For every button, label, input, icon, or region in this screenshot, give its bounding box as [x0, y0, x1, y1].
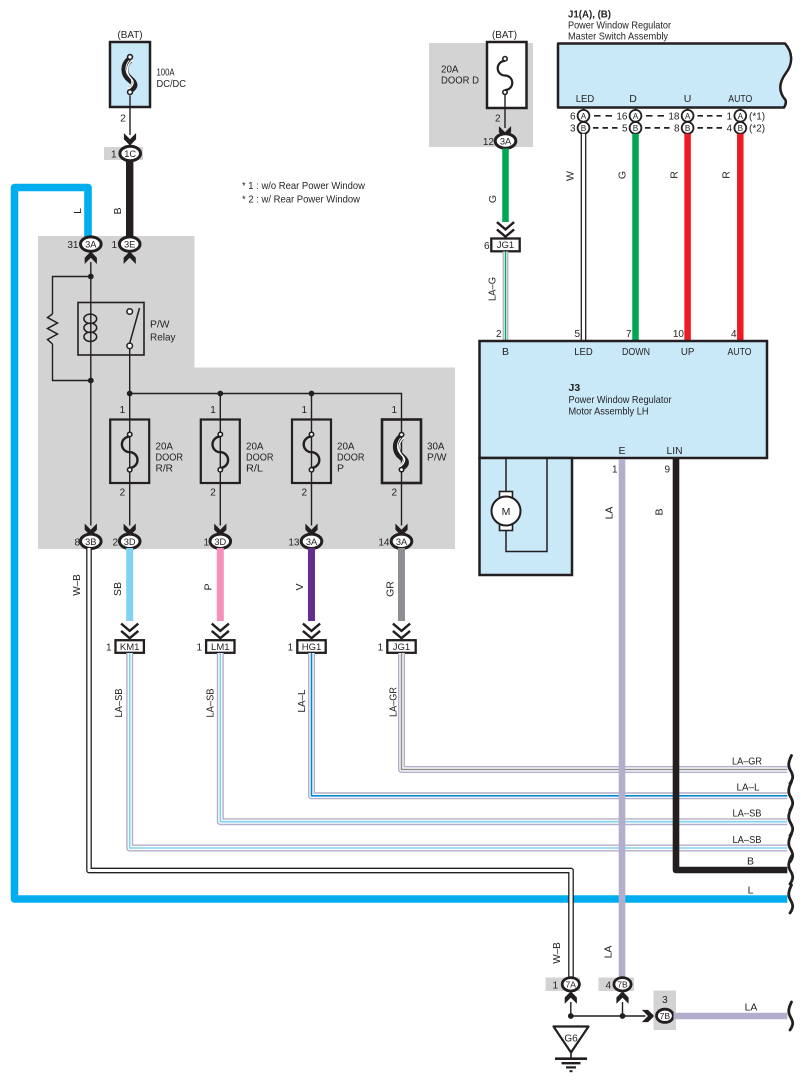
svg-text:B: B: [747, 856, 754, 868]
connector 13 3A: [288, 534, 321, 548]
brace LA-SB upper: [789, 808, 793, 836]
node junction top of resistor branch: [88, 274, 94, 280]
svg-text:3E: 3E: [124, 240, 135, 250]
svg-text:J1(A), (B): J1(A), (B): [568, 9, 611, 21]
dashes D to U row A: [646, 115, 668, 117]
door D relay block shaded area: [429, 43, 533, 147]
svg-text:LA–SB: LA–SB: [113, 689, 125, 718]
svg-text:Relay: Relay: [150, 332, 176, 344]
svg-text:HG1: HG1: [302, 642, 322, 653]
svg-text:18: 18: [668, 112, 680, 123]
brace LA bottom: [789, 1002, 793, 1030]
arrow into 3D (R/R): [124, 525, 135, 535]
relay switch contact top: [127, 309, 133, 315]
arrow double chevron into JG1 upper: [497, 222, 514, 237]
svg-text:1: 1: [120, 405, 126, 416]
wire R (U) from J1 to J3: [684, 134, 691, 341]
svg-text:12: 12: [483, 137, 495, 148]
motor assembly J3 box: [480, 341, 768, 458]
svg-text:1: 1: [612, 465, 618, 476]
wire fuse P/W to 3A: [401, 483, 403, 526]
node bus at P: [309, 391, 315, 397]
arrow into 1C: [125, 135, 136, 145]
wire fuse R/L to 3D: [219, 483, 221, 526]
svg-text:JG1: JG1: [497, 240, 514, 251]
wire LA-SB from LM1: [220, 653, 787, 822]
svg-text:3D: 3D: [214, 537, 226, 547]
svg-text:Power Window Regulator: Power Window Regulator: [569, 394, 672, 406]
wire ground bus: [571, 1002, 646, 1016]
connector 1C: [104, 146, 143, 160]
svg-text:1: 1: [106, 643, 112, 654]
svg-text:* 2 : w/ Rear Power Window: * 2 : w/ Rear Power Window: [242, 194, 360, 206]
svg-text:2: 2: [301, 488, 307, 499]
svg-text:7A: 7A: [566, 980, 577, 990]
svg-text:7B: 7B: [617, 980, 628, 990]
arrow into 3B: [85, 525, 96, 535]
junction block shaded area: [38, 236, 455, 549]
svg-text:3: 3: [570, 124, 576, 135]
fuse 30A P/W: [382, 420, 421, 484]
resistor zigzag: [48, 314, 58, 344]
svg-text:2: 2: [120, 488, 126, 499]
svg-text:14: 14: [378, 537, 390, 548]
arrow right into 7B (3): [643, 1011, 653, 1022]
arrow up into 7B: [617, 992, 628, 1002]
arrow into 3A (P/W): [396, 525, 407, 535]
arrow into 3A (P): [306, 525, 317, 535]
svg-text:G: G: [487, 195, 499, 203]
svg-text:DOWN: DOWN: [622, 346, 650, 358]
svg-text:R: R: [721, 171, 733, 179]
wire LA-G from JG1 to J3: [503, 252, 509, 342]
connector 1 7A: [546, 978, 581, 992]
arrow into 3D (R/L): [215, 525, 226, 535]
svg-text:2: 2: [495, 114, 501, 125]
junction JG1 (lower): [378, 640, 416, 653]
arrow double chevron into JG1 (GR): [393, 624, 410, 639]
svg-text:1: 1: [378, 643, 384, 654]
fuse 20A DOOR R/R: [110, 420, 149, 484]
svg-text:R: R: [669, 171, 681, 179]
svg-text:A: A: [685, 112, 691, 121]
wire G from 3A to JG1: [502, 149, 509, 223]
svg-text:1: 1: [111, 149, 117, 160]
fuse 20A DOOR P: [292, 420, 331, 484]
svg-text:3A: 3A: [396, 537, 408, 547]
wire B from LIN down and right: [676, 459, 787, 870]
wire B (thick) from 1C to 3E: [126, 161, 133, 240]
svg-text:W–B: W–B: [71, 574, 83, 596]
svg-text:4: 4: [605, 980, 611, 991]
wire LA-L from HG1: [312, 653, 788, 796]
wire fuse R/R to 3D: [129, 483, 131, 526]
svg-text:B: B: [112, 207, 124, 214]
svg-text:LA–SB: LA–SB: [205, 689, 217, 718]
pin 6 A (LED): [570, 110, 589, 123]
svg-text:3A: 3A: [85, 240, 97, 250]
svg-text:LA: LA: [603, 946, 615, 959]
svg-text:3: 3: [662, 995, 668, 1006]
wire from fusible link to 1C: [129, 96, 131, 136]
svg-text:UP: UP: [681, 346, 695, 358]
motor brush bottom: [500, 523, 513, 531]
svg-text:GR: GR: [385, 581, 397, 597]
connector 12 3A: [483, 134, 516, 148]
arrow up into 7A: [565, 992, 576, 1002]
svg-text:1: 1: [391, 405, 397, 416]
wire R (AUTO) from J1 to J3: [737, 134, 744, 341]
wire fuse bus: [130, 394, 402, 420]
svg-text:LA–L: LA–L: [296, 689, 308, 712]
svg-text:B: B: [738, 124, 744, 133]
svg-text:Master Switch Assembly: Master Switch Assembly: [568, 31, 669, 43]
wire relay coil line: [90, 262, 92, 526]
svg-text:31: 31: [67, 240, 79, 251]
svg-text:5: 5: [574, 329, 580, 340]
node bus at R/L: [217, 391, 223, 397]
wire tap to fuse P: [311, 394, 313, 420]
wire W from J1 to J3: [581, 134, 587, 341]
connector 4 7B: [599, 978, 635, 992]
dashes U to AUTO row B: [698, 127, 725, 129]
connector 14 3A: [378, 534, 411, 548]
wire fuse P to 3A: [311, 483, 313, 526]
node bus at R/R: [127, 391, 133, 397]
arrow up into 3A: [85, 252, 96, 262]
svg-text:2: 2: [391, 488, 397, 499]
node at 7A ground: [568, 1013, 574, 1019]
relay P/W Relay box: [78, 303, 144, 356]
fuse 20A DOOR D: [487, 42, 527, 108]
wire relay switch to bus: [129, 349, 131, 394]
node junction bottom of resistor branch: [88, 378, 94, 384]
connector 31 3A: [67, 237, 101, 251]
svg-text:AUTO: AUTO: [728, 346, 752, 358]
svg-text:A: A: [633, 112, 639, 121]
wire P from 3D: [217, 548, 224, 621]
svg-text:Motor Assembly LH: Motor Assembly LH: [569, 405, 649, 417]
svg-text:B: B: [502, 346, 509, 358]
connector 3 7B: [654, 991, 677, 1031]
pin stubs under J1: [584, 108, 741, 111]
svg-text:3B: 3B: [85, 537, 96, 547]
svg-text:L: L: [748, 885, 754, 897]
svg-text:A: A: [581, 112, 587, 121]
fuse 20A DOOR R/L: [201, 420, 240, 484]
connector 8 3B: [74, 534, 101, 548]
svg-text:R/L: R/L: [246, 463, 263, 475]
svg-text:6: 6: [484, 241, 490, 252]
svg-text:AUTO: AUTO: [728, 93, 752, 105]
relay coil: [84, 314, 97, 341]
brace LA-SB lower: [789, 834, 793, 862]
svg-text:W: W: [565, 171, 577, 181]
svg-text:LA: LA: [604, 507, 616, 520]
relay switch blade: [130, 308, 140, 343]
wire G from J1 to J3: [632, 134, 639, 341]
svg-text:U: U: [684, 93, 692, 105]
wire LA-SB from KM1: [130, 653, 788, 848]
svg-text:3D: 3D: [124, 537, 136, 547]
wire tap to fuse R/L: [219, 394, 221, 420]
svg-text:A: A: [738, 112, 744, 121]
svg-text:P/W: P/W: [427, 452, 447, 464]
pin 3 B (LED): [570, 122, 589, 135]
wire GR from 3A: [398, 548, 405, 621]
svg-text:LED: LED: [576, 93, 595, 105]
svg-text:(*2): (*2): [749, 124, 765, 135]
junction HG1: [288, 640, 326, 653]
svg-text:SB: SB: [112, 582, 124, 596]
connector 1 3D: [203, 534, 230, 548]
svg-text:W–B: W–B: [551, 942, 563, 964]
svg-text:KM1: KM1: [120, 642, 140, 653]
svg-text:1: 1: [726, 112, 732, 123]
junction LM1: [196, 640, 234, 653]
svg-text:LA: LA: [745, 1002, 758, 1014]
arrow up into 3E: [124, 252, 135, 262]
connector 2 3D: [112, 534, 140, 548]
svg-text:M: M: [502, 506, 511, 518]
svg-text:1: 1: [111, 240, 117, 251]
fusible link 100A DC/DC: [110, 42, 150, 107]
svg-text:(BAT): (BAT): [118, 29, 143, 41]
svg-text:B: B: [633, 124, 639, 133]
svg-text:D: D: [629, 93, 637, 105]
wire LA-GR from JG1: [402, 653, 788, 770]
svg-text:LA–G: LA–G: [487, 277, 499, 301]
arrow double chevron into KM1: [121, 624, 138, 639]
resistor branch wire: [53, 277, 91, 381]
arrow double chevron into LM1: [212, 624, 229, 639]
svg-text:100A: 100A: [157, 67, 175, 79]
ground G6: [554, 1027, 589, 1072]
svg-text:1: 1: [196, 643, 202, 654]
pin 16 A (D): [616, 110, 641, 123]
svg-text:LM1: LM1: [211, 642, 229, 653]
svg-text:JG1: JG1: [393, 642, 410, 653]
svg-text:LA–GR: LA–GR: [388, 687, 400, 717]
junction 6 JG1 (upper): [484, 239, 520, 253]
brace B: [789, 856, 793, 884]
svg-text:1: 1: [203, 537, 209, 548]
svg-text:2: 2: [210, 488, 216, 499]
svg-text:13: 13: [288, 537, 300, 548]
master switch assembly J1 box: [558, 44, 791, 108]
svg-text:L: L: [72, 208, 84, 214]
pin 4 B (AUTO): [726, 122, 746, 135]
svg-text:2: 2: [496, 329, 502, 340]
svg-text:16: 16: [616, 112, 628, 123]
brace LA-GR: [789, 756, 793, 784]
arrow double chevron into HG1: [303, 624, 320, 639]
dashes LED to D row A: [594, 115, 616, 117]
motor brush top: [500, 492, 513, 500]
dashes D to U row B: [645, 127, 671, 129]
wire LA from E to 7B: [619, 459, 626, 978]
svg-text:LIN: LIN: [667, 445, 683, 457]
svg-text:P/W: P/W: [150, 319, 170, 331]
pin 18 A (U): [668, 110, 693, 123]
svg-text:E: E: [618, 445, 625, 457]
svg-text:(*1): (*1): [749, 112, 765, 123]
svg-text:3A: 3A: [306, 537, 318, 547]
svg-text:1: 1: [288, 643, 294, 654]
svg-text:7B: 7B: [660, 1011, 671, 1021]
svg-text:LA–L: LA–L: [737, 782, 760, 794]
motor sub box: [480, 458, 573, 575]
svg-text:2: 2: [112, 537, 118, 548]
svg-text:R/R: R/R: [156, 463, 174, 475]
svg-text:9: 9: [664, 465, 670, 476]
svg-text:1: 1: [552, 980, 558, 991]
wire W-B from 3B down and across to 7A: [89, 548, 571, 978]
svg-text:8: 8: [674, 124, 680, 135]
dashes U to AUTO row A: [698, 115, 725, 117]
svg-text:LA–SB: LA–SB: [733, 834, 762, 846]
wire LA right bottom: [674, 1013, 788, 1020]
relay switch contact bottom: [127, 343, 133, 349]
wire tap to fuse R/R: [129, 394, 131, 420]
svg-text:G: G: [617, 171, 629, 179]
svg-text:3A: 3A: [500, 137, 512, 147]
svg-text:B: B: [581, 124, 587, 133]
svg-text:1: 1: [301, 405, 307, 416]
node at 7B ground: [620, 1013, 626, 1019]
svg-text:LA–GR: LA–GR: [732, 756, 762, 768]
wire motor loop: [506, 459, 547, 552]
svg-text:2: 2: [120, 113, 126, 125]
pin 5 B (D): [622, 122, 641, 135]
wire V from 3A: [308, 548, 315, 621]
dashes LED to D row B: [593, 127, 619, 129]
svg-text:6: 6: [570, 112, 576, 123]
svg-text:(BAT): (BAT): [492, 29, 517, 41]
svg-text:DOOR D: DOOR D: [441, 76, 479, 87]
wire SB from 3D: [126, 548, 133, 621]
motor M: [492, 497, 521, 526]
svg-text:4: 4: [726, 124, 732, 135]
svg-text:1: 1: [210, 405, 216, 416]
arrow into 12 3A: [500, 128, 511, 138]
svg-text:20A: 20A: [441, 65, 459, 76]
svg-text:P: P: [203, 583, 215, 590]
svg-text:1C: 1C: [124, 149, 136, 159]
svg-text:7: 7: [626, 329, 632, 340]
pin 8 B (U): [674, 122, 694, 135]
svg-text:LED: LED: [574, 346, 593, 358]
svg-text:G6: G6: [564, 1034, 578, 1045]
brace LA-L: [789, 782, 793, 810]
svg-text:B: B: [685, 124, 691, 133]
svg-text:J3: J3: [569, 382, 581, 394]
wire fuse DOOR D to 3A: [504, 94, 506, 128]
junction KM1: [106, 640, 144, 653]
svg-text:DC/DC: DC/DC: [157, 78, 187, 90]
svg-text:B: B: [654, 508, 666, 515]
svg-text:V: V: [294, 583, 306, 590]
svg-text:* 1 : w/o Rear Power Window: * 1 : w/o Rear Power Window: [242, 180, 365, 192]
wire L (cyan frame): [15, 188, 788, 900]
brace L: [789, 885, 793, 913]
svg-text:10: 10: [673, 329, 685, 340]
pin 1 A (AUTO): [726, 110, 746, 123]
svg-text:P: P: [337, 463, 344, 475]
svg-text:LA–SB: LA–SB: [733, 808, 762, 820]
svg-text:5: 5: [622, 124, 628, 135]
svg-text:4: 4: [731, 329, 737, 340]
connector 1 3E: [111, 237, 140, 251]
